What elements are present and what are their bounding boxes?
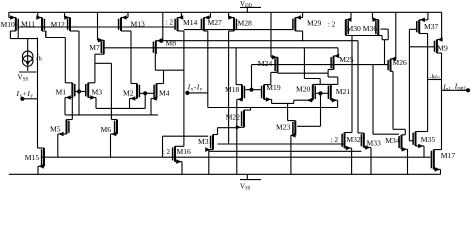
wire [373,133,399,135]
source arrow of M31 [205,147,210,152]
junction node [143,91,147,95]
svg-text:M16: M16 [177,147,192,156]
wire [345,147,352,149]
wire [96,107,145,109]
wire [337,100,339,107]
junction node [466,88,470,92]
wire [9,31,11,39]
transistor M18 [242,85,244,100]
wire [64,12,66,17]
source arrow of M30 [346,17,351,22]
wire [95,98,97,109]
svg-text:-ko2: -ko2 [429,73,440,80]
wire [45,31,47,38]
transistor M13 [119,18,121,32]
wire [155,69,184,71]
wire [251,65,253,90]
wire [88,82,95,84]
VSS supply symbol [240,179,261,181]
wire [65,97,72,99]
transistor M9 [435,40,437,54]
wire [64,38,66,83]
wire [271,99,273,103]
source arrow of M16 [176,159,181,164]
wire [154,54,156,70]
wire [434,168,441,170]
wire [345,132,353,134]
svg-text:M32: M32 [346,135,361,144]
transistor M35 [413,132,415,147]
wire [315,92,320,94]
wire [393,128,405,130]
wire [428,79,442,81]
source arrow of M17 [435,167,440,172]
wire [27,67,29,71]
svg-text:M11: M11 [21,20,35,29]
transistor M24 [275,57,277,72]
wire [111,133,118,135]
wire [121,30,131,32]
svg-text:M27: M27 [208,18,223,27]
source arrow of M37 [420,18,425,23]
transistor M28 [234,18,236,32]
wire [303,48,305,79]
wire [409,46,434,48]
wire [373,19,379,21]
wire [271,56,278,58]
wire [229,17,234,19]
wire [139,92,145,94]
wire [175,161,182,163]
wire [302,31,304,41]
wire [382,39,388,41]
wire [272,102,294,104]
transistor M37 [417,20,419,34]
wire [178,30,184,32]
VDD supply symbol [240,6,261,8]
wire [416,131,428,133]
svg-text:M8: M8 [166,39,177,48]
wire [208,107,338,109]
wire [402,134,406,136]
wire [235,48,237,85]
source arrow of M27 [204,15,209,20]
svg-text:M3: M3 [92,88,103,97]
wire [65,114,158,116]
svg-text:M18: M18 [225,85,240,94]
source arrow of M20 [307,98,312,103]
wire [370,148,372,175]
wire [387,29,389,40]
transistor M4 [154,84,156,99]
junction node [20,97,24,101]
source arrow of M18 [237,97,242,102]
source arrow of M2 [130,96,135,101]
wire [210,12,212,17]
svg-text:M31: M31 [198,137,213,146]
source arrow of M22 [236,125,241,130]
transistor M11 [42,18,44,32]
svg-text:: 2: : 2 [328,21,336,29]
source arrow of M4 [152,96,157,101]
wire [264,84,271,86]
wire [331,99,338,101]
wire [130,98,138,100]
source arrow of M26 [391,57,396,62]
wire [440,169,442,174]
source arrow of M7 [98,38,103,43]
svg-text:M25: M25 [339,55,354,64]
wire [278,72,329,74]
wire [71,98,73,120]
wire [372,12,374,19]
wire [37,166,39,174]
svg-text:: 2: : 2 [166,19,174,27]
wire [57,134,59,157]
wire [42,156,431,158]
wire [37,38,39,149]
svg-text:: 2: : 2 [331,136,339,144]
VDD rail [9,11,442,13]
wire [129,99,131,109]
wire [162,12,164,40]
wire [218,143,344,145]
wire [162,136,164,157]
wire [127,12,129,17]
wire [304,78,320,80]
wire [291,134,295,136]
transistor M17 [431,150,433,170]
wire [209,149,213,151]
wire [37,12,39,17]
wire [27,39,29,52]
wire [130,31,132,84]
wire [351,148,353,174]
svg-text:M21: M21 [336,87,351,96]
source arrow of M6 [111,132,116,137]
wire [17,30,19,39]
transistor M33 [361,133,363,148]
wire [327,73,329,77]
wire [8,12,10,17]
wire [110,134,112,157]
svg-text:M36: M36 [363,24,378,33]
transistor M2 [137,84,139,99]
wire [346,35,382,37]
source arrow of M29 [296,15,301,20]
wire [442,89,467,91]
transistor M26 [388,59,390,72]
transistor M31 [211,135,213,150]
wire [381,28,389,30]
wire [244,109,251,111]
wire [105,47,339,49]
wire [250,108,252,111]
wire [217,128,219,135]
wire [175,145,184,147]
transistor M29 [293,18,295,32]
transistor M22 [242,110,244,127]
wire [441,12,443,39]
wire [391,58,396,60]
wire [328,76,338,78]
wire [10,38,37,40]
source arrow of M13 [122,15,127,20]
svg-text:M15: M15 [25,153,40,162]
wire [384,40,386,65]
transistor M3 [86,83,88,98]
source arrow of M8 [157,38,162,43]
wire [110,63,112,119]
wire [381,36,383,40]
wire [416,145,425,147]
wire [94,54,96,83]
wire [95,53,104,55]
wire [10,30,15,32]
svg-text:M10: M10 [1,20,16,29]
source arrow of M12 [64,15,69,20]
transistor M10 [16,18,18,32]
junction node [185,91,189,95]
wire [351,36,353,133]
wire [150,99,152,115]
wire [328,69,333,71]
wire [350,12,352,19]
wire [290,135,292,174]
wire [295,17,302,19]
svg-text:M4: M4 [159,89,170,98]
wire [346,19,351,21]
svg-text:M1: M1 [56,88,67,97]
wire [337,48,339,56]
source arrow of M34 [402,147,407,152]
svg-text:M12: M12 [51,20,66,29]
wire [156,40,358,42]
wire [144,93,146,108]
svg-text:M5: M5 [50,124,61,133]
wire [297,125,320,127]
junction node [159,39,163,43]
wire [180,12,182,17]
source arrow of M5 [58,132,63,137]
wire [111,119,117,121]
wire [228,31,230,144]
wire [264,98,272,100]
svg-text:M23: M23 [276,123,291,132]
wire [178,17,182,19]
wire [9,17,16,19]
svg-text:M9: M9 [437,43,448,52]
VDD stub [246,7,248,12]
transistor M5 [67,120,69,135]
wire [434,149,442,151]
wire [252,89,262,91]
transistor M30 [346,20,348,36]
wire [121,17,128,19]
wire [295,30,302,32]
wire [38,165,44,167]
wire [236,84,242,86]
wire [288,120,296,122]
svg-text:M2: M2 [123,89,134,98]
wire [64,98,66,115]
wire [163,70,165,83]
wire [357,41,359,133]
wire [229,30,234,32]
wire [163,135,209,137]
wire [187,92,207,94]
source arrow of M15 [39,164,44,169]
wire [427,80,429,132]
svg-text:M28: M28 [238,18,253,27]
source arrow of M3 [90,95,95,100]
wire [236,99,238,174]
transistor M36 [376,20,378,36]
transistor M1 [72,83,74,98]
svg-text:M33: M33 [367,139,382,148]
wire [45,31,47,38]
wire [372,65,374,135]
svg-text:M6: M6 [101,125,112,134]
wire [358,132,364,134]
wire [213,134,218,136]
transistor M7 [101,40,103,54]
wire [252,64,389,66]
wire [427,12,429,19]
wire [331,83,338,85]
wire [204,17,211,19]
wire [423,146,425,157]
VSS stub [246,174,248,179]
wire [65,17,71,19]
wire [46,37,66,39]
source arrow of M21 [332,98,337,103]
source arrow of M14 [178,15,183,20]
wire [70,30,79,32]
wire [404,129,406,135]
wire [131,83,137,85]
junction node [318,91,322,95]
wire [98,39,104,41]
junction node [77,89,81,93]
source arrow of M9 [437,37,442,42]
svg-text:M30: M30 [347,24,362,33]
wire [419,33,427,35]
wire [271,71,278,73]
source arrow of M11 [36,15,41,20]
transistor M23 [293,121,295,136]
wire [437,52,442,54]
wire [207,31,209,108]
wire [204,30,208,32]
wire [321,92,329,94]
source arrow of M28 [228,15,233,20]
wire [75,91,79,93]
wire [270,12,272,57]
svg-text:M37: M37 [424,22,439,31]
wire [409,140,413,142]
wire [18,26,175,28]
source arrow of M32 [346,146,351,151]
transistor M25 [331,56,333,70]
svg-text:M26: M26 [393,58,408,67]
transistor M19 [262,85,264,100]
transistor M32 [342,133,344,149]
wire [95,62,112,64]
svg-text:M22: M22 [226,112,241,121]
wire [228,12,230,17]
svg-text:M19: M19 [266,83,281,92]
current source Ib [22,51,33,66]
wire [181,162,183,175]
source arrow of M1 [66,95,71,100]
transistor M14 [175,18,177,32]
transistor M34 [399,135,401,150]
wire [65,82,72,84]
wire [391,70,394,72]
wire [237,126,244,128]
wire [88,97,96,99]
wire [42,30,46,32]
transistor M20 [313,84,315,100]
svg-text:M17: M17 [441,151,456,160]
svg-text:M14: M14 [183,18,198,27]
wire [145,92,154,94]
wire [441,53,443,150]
svg-text:M35: M35 [421,135,436,144]
wire [319,79,321,85]
svg-text:M34: M34 [385,136,400,145]
wire [337,77,339,84]
source arrow of M23 [290,133,295,138]
wire [237,98,242,100]
wire [19,71,37,73]
wire [209,150,362,152]
wire [208,150,210,175]
transistor M8 [153,41,155,55]
wire [364,147,371,149]
wire [97,12,99,40]
wire [409,28,416,30]
source arrow of M10 [10,15,15,20]
wire [408,29,410,141]
transistor M12 [68,18,70,32]
junction node [249,88,253,92]
wire [334,55,339,57]
svg-text:: 2: : 2 [163,148,171,156]
svg-text:M29: M29 [307,19,322,28]
svg-text:M24: M24 [258,59,273,68]
wire [419,19,428,21]
transistor M21 [328,84,330,100]
source arrow of M25 [334,54,339,59]
source arrow of M35 [418,144,423,149]
wire [270,72,272,84]
source arrow of M33 [365,145,370,150]
wire [294,99,313,101]
wire [67,119,73,121]
wire [38,17,42,19]
source arrow of M36 [373,17,378,22]
wire [184,29,293,31]
transistor M15 [42,148,44,166]
svg-text:M13: M13 [131,20,146,29]
svg-text:M20: M20 [296,85,311,94]
wire [293,100,295,103]
wire [437,39,442,41]
wire [183,31,185,146]
wire [313,83,331,85]
